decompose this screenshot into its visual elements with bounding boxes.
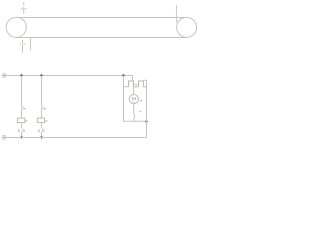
sensor B2 below left pulley — [20, 40, 26, 53]
wire branch2 lower — [41, 123, 43, 129]
label M1 — [140, 100, 142, 102]
coil K2 — [37, 118, 44, 123]
wire right loop left — [124, 75, 147, 121]
motor M1 — [129, 95, 138, 104]
contact Q1 — [133, 83, 135, 86]
node J2 — [40, 74, 42, 76]
contact B2 — [42, 106, 44, 109]
wire branch2 bottom — [41, 132, 43, 138]
wire motor to bottom edge — [133, 118, 135, 121]
terminal L1 — [2, 74, 6, 78]
belt top run — [16, 17, 186, 19]
wire branch2 upper — [41, 75, 43, 106]
node J4 — [20, 136, 22, 138]
label B1 — [23, 108, 25, 110]
node J5 — [40, 136, 42, 138]
node J3 — [122, 74, 124, 76]
terminal X1 marks — [18, 130, 24, 132]
label Q1 — [135, 84, 137, 85]
wire rail drop — [132, 76, 134, 82]
bushing notch 1 — [129, 81, 134, 87]
wire branch1 bottom — [21, 132, 23, 138]
label B2 — [43, 108, 45, 110]
pulley left — [6, 17, 26, 37]
terminal jog on motor wire — [133, 115, 136, 118]
label K1 — [25, 120, 27, 121]
tick mark below left pulley — [30, 38, 32, 51]
wire to motor — [133, 86, 135, 95]
top rail — [6, 75, 133, 77]
node J6 — [145, 120, 147, 122]
pulley right — [177, 17, 197, 37]
wire notch2 to riser — [144, 79, 147, 81]
wire right riser — [146, 80, 148, 138]
label K2 — [45, 120, 47, 121]
terminal X2 marks — [38, 130, 44, 132]
sensor B1 above left pulley — [21, 2, 27, 14]
bottom rail — [6, 137, 147, 139]
terminal N — [2, 136, 6, 140]
tick mark at right pulley — [175, 5, 177, 23]
wire branch1 mid — [21, 109, 23, 118]
label W1 — [140, 111, 142, 112]
wire branch2 mid — [41, 109, 43, 118]
wire branch1 lower — [21, 123, 23, 129]
node J1 — [20, 74, 22, 76]
enclosure top edge — [124, 86, 146, 88]
wire motor bottom — [133, 104, 135, 115]
coil K1 — [17, 118, 24, 123]
wire branch1 upper — [21, 75, 23, 106]
belt bottom run — [16, 37, 186, 39]
contact B1 — [22, 106, 24, 109]
bushing notch 2 — [139, 81, 144, 87]
